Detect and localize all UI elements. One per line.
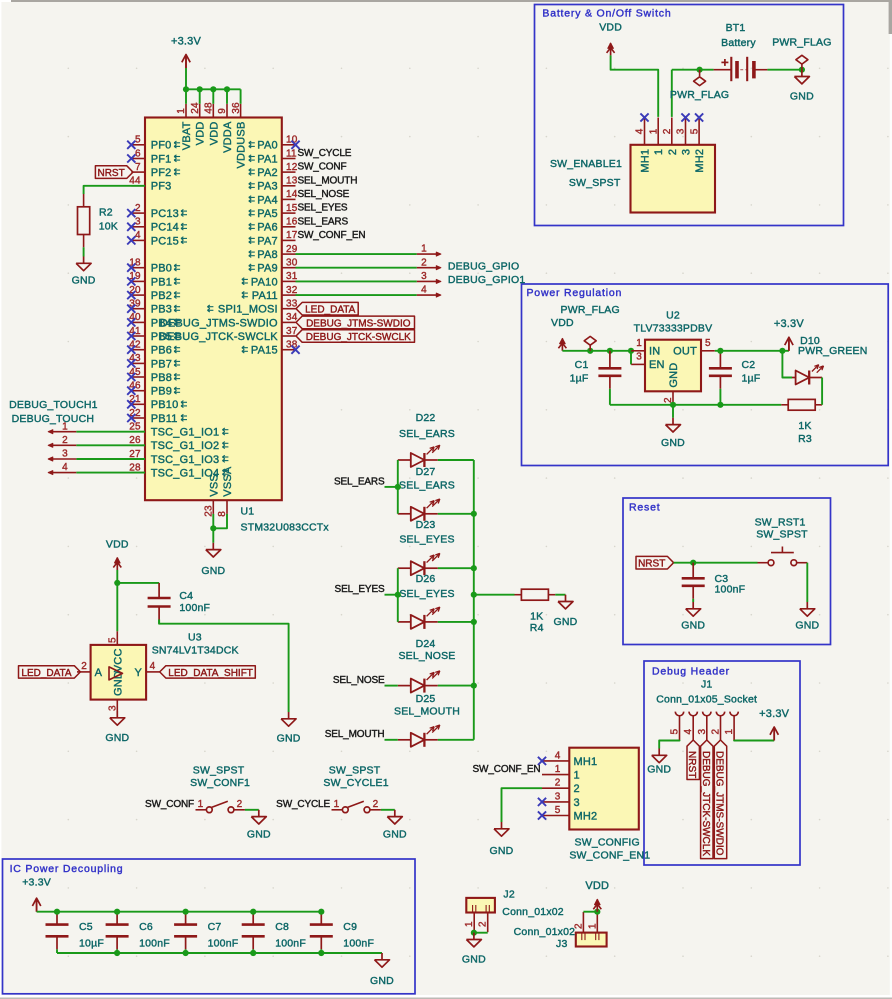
svg-text:1: 1: [421, 244, 427, 255]
svg-text:PF3: PF3: [151, 181, 172, 193]
svg-text:VDD: VDD: [106, 539, 129, 551]
svg-text:SEL_EYES: SEL_EYES: [335, 584, 385, 595]
svg-text:1µF: 1µF: [570, 372, 589, 384]
svg-text:1: 1: [574, 770, 580, 782]
svg-text:2: 2: [373, 799, 379, 810]
svg-text:3: 3: [62, 449, 68, 460]
svg-text:1: 1: [587, 923, 598, 929]
svg-text:MH1: MH1: [574, 756, 598, 768]
svg-text:100nF: 100nF: [275, 938, 306, 950]
svg-text:PC15: PC15: [151, 235, 179, 247]
svg-text:DEBUG_JTMS-SWDIO: DEBUG_JTMS-SWDIO: [160, 317, 278, 329]
svg-text:6: 6: [135, 148, 141, 159]
svg-text:4: 4: [421, 285, 427, 296]
svg-text:100nF: 100nF: [343, 938, 374, 950]
svg-text:D23: D23: [416, 519, 436, 531]
svg-text:LED_DATA: LED_DATA: [305, 305, 356, 316]
svg-text:PC13: PC13: [151, 208, 179, 220]
svg-text:C6: C6: [139, 921, 153, 933]
svg-text:3: 3: [108, 705, 119, 711]
svg-text:Debug Header: Debug Header: [652, 666, 730, 678]
svg-text:PWR_FLAG: PWR_FLAG: [772, 37, 831, 49]
svg-text:SW_CONF1: SW_CONF1: [190, 777, 250, 789]
svg-text:GND: GND: [795, 620, 819, 632]
svg-text:2: 2: [574, 783, 580, 795]
svg-text:PA9: PA9: [257, 263, 278, 275]
svg-text:VDD: VDD: [208, 122, 220, 146]
svg-text:SPI1_MOSI: SPI1_MOSI: [218, 304, 278, 316]
svg-text:7: 7: [135, 162, 141, 173]
svg-text:1µF: 1µF: [742, 372, 761, 384]
svg-text:SW_CONF: SW_CONF: [145, 799, 194, 810]
svg-text:2: 2: [237, 799, 243, 810]
svg-text:GND: GND: [668, 363, 680, 388]
svg-text:SEL_MOUTH: SEL_MOUTH: [394, 706, 460, 718]
svg-text:D26: D26: [416, 573, 436, 585]
svg-text:5: 5: [689, 128, 700, 134]
svg-text:PB6: PB6: [151, 345, 172, 357]
svg-text:STM32U083CCTx: STM32U083CCTx: [241, 522, 330, 534]
svg-text:GND: GND: [201, 565, 225, 577]
svg-text:9: 9: [217, 108, 228, 114]
svg-text:PA3: PA3: [257, 181, 278, 193]
svg-text:R2: R2: [99, 207, 113, 219]
svg-text:1: 1: [636, 338, 642, 349]
svg-text:GND: GND: [247, 828, 271, 840]
svg-text:1: 1: [464, 921, 475, 927]
svg-text:PF1: PF1: [151, 153, 172, 165]
svg-text:GND: GND: [681, 620, 705, 632]
svg-text:C8: C8: [275, 921, 289, 933]
svg-text:3: 3: [421, 271, 427, 282]
svg-text:SW_CYCLE: SW_CYCLE: [298, 148, 352, 159]
svg-text:1: 1: [648, 128, 659, 134]
svg-text:EN: EN: [649, 359, 665, 371]
svg-text:3: 3: [636, 352, 642, 363]
svg-text:1K: 1K: [530, 611, 543, 623]
svg-text:PB1: PB1: [151, 276, 172, 288]
svg-text:DEBUG_JTCK-SWCLK: DEBUG_JTCK-SWCLK: [159, 331, 278, 343]
svg-text:DEBUG_JTCK-SWCLK: DEBUG_JTCK-SWCLK: [306, 332, 411, 343]
svg-text:SEL_EARS: SEL_EARS: [334, 476, 385, 487]
svg-text:PA10: PA10: [251, 276, 278, 288]
svg-text:2: 2: [667, 149, 679, 155]
svg-text:PB9: PB9: [151, 386, 172, 398]
svg-text:5: 5: [135, 135, 141, 146]
svg-text:SW_CYCLE: SW_CYCLE: [276, 799, 330, 810]
svg-text:DEBUG_JTCK-SWCLK: DEBUG_JTCK-SWCLK: [700, 751, 711, 856]
svg-text:16: 16: [286, 217, 298, 228]
svg-text:+3.3V: +3.3V: [22, 877, 51, 889]
svg-text:100nF: 100nF: [139, 938, 170, 950]
svg-text:5: 5: [670, 729, 681, 735]
svg-text:3: 3: [676, 128, 687, 134]
svg-text:U3: U3: [188, 631, 202, 643]
svg-text:D25: D25: [416, 693, 436, 705]
svg-text:GND: GND: [790, 90, 814, 102]
svg-text:TSC_G1_IO1: TSC_G1_IO1: [151, 427, 220, 439]
svg-text:LED_DATA: LED_DATA: [21, 668, 72, 679]
svg-text:SEL_NOSE: SEL_NOSE: [398, 650, 455, 662]
svg-text:PF0: PF0: [151, 140, 172, 152]
svg-text:Reset: Reset: [629, 502, 660, 514]
svg-text:SN74LV1T34DCK: SN74LV1T34DCK: [152, 644, 239, 656]
svg-text:SW_CONFIG: SW_CONFIG: [575, 837, 640, 849]
svg-text:2: 2: [81, 661, 87, 672]
svg-text:C2: C2: [742, 359, 756, 371]
svg-text:GND: GND: [554, 616, 578, 628]
svg-text:PA6: PA6: [257, 222, 278, 234]
svg-text:1: 1: [198, 799, 204, 810]
svg-text:GND: GND: [383, 828, 407, 840]
svg-text:3: 3: [555, 791, 561, 802]
svg-text:1: 1: [724, 729, 735, 735]
svg-text:SEL_EARS: SEL_EARS: [298, 216, 349, 227]
svg-text:PB2: PB2: [151, 290, 172, 302]
svg-text:TSC_G1_IO3: TSC_G1_IO3: [151, 454, 220, 466]
svg-text:J3: J3: [556, 938, 568, 950]
svg-text:SW_CONF_EN: SW_CONF_EN: [298, 230, 366, 241]
svg-text:PB11: PB11: [151, 413, 178, 425]
svg-text:VDD: VDD: [599, 22, 622, 34]
svg-text:DEBUG_GPIO1: DEBUG_GPIO1: [448, 274, 525, 286]
svg-text:+3.3V: +3.3V: [171, 35, 202, 47]
svg-text:SEL_EYES: SEL_EYES: [399, 588, 454, 600]
svg-text:SEL_EARS: SEL_EARS: [399, 480, 455, 492]
svg-text:SEL_EARS: SEL_EARS: [399, 428, 455, 440]
svg-text:SW_SPST: SW_SPST: [569, 177, 621, 189]
svg-text:4: 4: [555, 750, 561, 761]
svg-text:Power Regulation: Power Regulation: [527, 287, 623, 299]
svg-text:SW_SPST: SW_SPST: [756, 529, 808, 541]
svg-text:TLV73333PDBV: TLV73333PDBV: [634, 323, 713, 335]
svg-text:PC14: PC14: [151, 222, 179, 234]
svg-text:GND: GND: [370, 975, 394, 987]
svg-text:SEL_MOUTH: SEL_MOUTH: [325, 729, 385, 740]
svg-text:D22: D22: [416, 412, 436, 424]
svg-text:MH2: MH2: [574, 810, 598, 822]
svg-text:TSC_G1_IO2: TSC_G1_IO2: [151, 440, 220, 452]
svg-text:R4: R4: [530, 622, 544, 634]
svg-text:13: 13: [286, 176, 298, 187]
svg-text:DEBUG_GPIO: DEBUG_GPIO: [448, 260, 519, 272]
svg-text:PB8: PB8: [151, 372, 172, 384]
svg-text:1: 1: [334, 799, 340, 810]
svg-text:4: 4: [62, 462, 68, 473]
svg-text:GND: GND: [462, 954, 486, 966]
svg-text:11: 11: [286, 148, 297, 159]
svg-text:SW_SPST: SW_SPST: [193, 765, 245, 777]
svg-text:MH2: MH2: [694, 149, 706, 173]
svg-text:+3.3V: +3.3V: [759, 708, 790, 720]
svg-text:SEL_NOSE: SEL_NOSE: [298, 189, 350, 200]
svg-text:DEBUG_TOUCH: DEBUG_TOUCH: [12, 413, 95, 425]
svg-text:2: 2: [662, 128, 673, 134]
svg-text:2: 2: [555, 778, 561, 789]
svg-text:100nF: 100nF: [179, 602, 210, 614]
svg-text:17: 17: [286, 230, 298, 241]
svg-text:SEL_NOSE: SEL_NOSE: [333, 675, 385, 686]
svg-text:PWR_GREEN: PWR_GREEN: [798, 345, 867, 357]
svg-text:PB3: PB3: [151, 304, 172, 316]
svg-text:NRST: NRST: [638, 559, 665, 570]
svg-text:3: 3: [681, 149, 693, 155]
svg-text:MH1: MH1: [640, 149, 652, 173]
svg-text:2: 2: [62, 435, 68, 446]
svg-text:5: 5: [705, 338, 711, 349]
svg-text:100nF: 100nF: [715, 584, 746, 596]
svg-text:SW_CONF_EN: SW_CONF_EN: [473, 764, 541, 775]
svg-text:PA5: PA5: [257, 208, 278, 220]
svg-text:15: 15: [286, 203, 298, 214]
svg-text:PWR_FLAG: PWR_FLAG: [670, 89, 729, 101]
svg-text:Battery: Battery: [721, 37, 756, 49]
svg-text:PA2: PA2: [257, 167, 278, 179]
svg-text:5: 5: [108, 637, 119, 643]
svg-text:PA11: PA11: [252, 290, 278, 302]
svg-text:PA7: PA7: [257, 235, 278, 247]
svg-text:D27: D27: [416, 466, 436, 478]
svg-text:R3: R3: [798, 433, 812, 445]
svg-text:SEL_EYES: SEL_EYES: [399, 534, 454, 546]
svg-text:A: A: [95, 667, 103, 679]
svg-text:SEL_MOUTH: SEL_MOUTH: [298, 175, 358, 186]
svg-text:GND: GND: [661, 437, 685, 449]
svg-text:3: 3: [697, 729, 708, 735]
svg-text:1: 1: [176, 108, 187, 114]
svg-text:DEBUG_JTMS-SWDIO: DEBUG_JTMS-SWDIO: [714, 751, 725, 856]
svg-text:U2: U2: [666, 310, 680, 322]
svg-text:10µF: 10µF: [79, 938, 104, 950]
svg-text:PF2: PF2: [151, 167, 172, 179]
svg-text:C7: C7: [208, 921, 222, 933]
svg-text:GND: GND: [490, 845, 514, 857]
svg-text:VDD: VDD: [195, 122, 207, 146]
svg-text:Battery & On/Off Switch: Battery & On/Off Switch: [542, 8, 671, 20]
svg-text:SEL_EYES: SEL_EYES: [298, 203, 348, 214]
svg-text:VSS: VSS: [208, 474, 220, 497]
svg-text:NRST: NRST: [97, 168, 124, 179]
svg-text:C5: C5: [79, 921, 93, 933]
svg-text:Conn_01x05_Socket: Conn_01x05_Socket: [656, 694, 757, 706]
svg-text:2: 2: [421, 257, 427, 268]
svg-text:IC Power Decoupling: IC Power Decoupling: [10, 863, 124, 875]
svg-text:4: 4: [683, 729, 694, 735]
svg-text:C4: C4: [179, 590, 193, 602]
svg-text:SW_CYCLE1: SW_CYCLE1: [323, 777, 388, 789]
svg-text:4: 4: [635, 128, 646, 134]
svg-text:1K: 1K: [798, 420, 811, 432]
svg-text:VDD: VDD: [585, 880, 609, 892]
svg-text:PWR_FLAG: PWR_FLAG: [561, 304, 620, 316]
svg-text:D24: D24: [416, 638, 436, 650]
svg-text:PA8: PA8: [257, 249, 278, 261]
svg-text:Y: Y: [135, 667, 143, 679]
svg-text:PA0: PA0: [257, 140, 278, 152]
svg-text:OUT: OUT: [673, 346, 697, 358]
svg-text:DEBUG_JTMS-SWDIO: DEBUG_JTMS-SWDIO: [306, 318, 411, 329]
svg-text:2: 2: [135, 203, 141, 214]
svg-text:4: 4: [135, 230, 141, 241]
svg-text:PB10: PB10: [151, 399, 179, 411]
svg-text:SW_CONF_EN1: SW_CONF_EN1: [569, 849, 650, 861]
svg-text:4: 4: [150, 661, 156, 672]
svg-text:3: 3: [135, 217, 141, 228]
svg-text:VDD: VDD: [551, 317, 574, 329]
svg-text:VSSA: VSSA: [222, 466, 234, 497]
svg-text:SW_SPST: SW_SPST: [329, 765, 381, 777]
svg-text:GND: GND: [72, 275, 96, 287]
svg-text:10K: 10K: [99, 220, 118, 232]
svg-text:DEBUG_TOUCH1: DEBUG_TOUCH1: [9, 399, 98, 411]
svg-text:14: 14: [286, 189, 298, 200]
svg-text:SW_CONF: SW_CONF: [298, 162, 347, 173]
svg-text:PB7: PB7: [151, 358, 172, 370]
svg-text:NRST: NRST: [686, 751, 697, 778]
svg-text:5: 5: [555, 805, 561, 816]
svg-text:100nF: 100nF: [208, 938, 239, 950]
svg-text:C9: C9: [343, 921, 357, 933]
svg-text:U1: U1: [241, 506, 255, 518]
svg-text:SW_ENABLE1: SW_ENABLE1: [550, 158, 622, 170]
svg-text:1: 1: [555, 764, 561, 775]
svg-text:VDDUSB: VDDUSB: [236, 122, 248, 169]
svg-text:VDDA: VDDA: [222, 121, 234, 153]
svg-text:2: 2: [478, 921, 489, 927]
svg-text:SW_RST1: SW_RST1: [755, 517, 806, 529]
svg-text:GND: GND: [277, 733, 301, 745]
svg-text:IN: IN: [649, 346, 660, 358]
svg-text:2: 2: [711, 729, 722, 735]
svg-text:VBAT: VBAT: [181, 121, 193, 150]
svg-text:12: 12: [286, 162, 298, 173]
svg-text:1: 1: [653, 149, 665, 155]
svg-text:PA15: PA15: [251, 345, 278, 357]
svg-text:PB0: PB0: [151, 263, 172, 275]
svg-text:LED_DATA_SHIFT: LED_DATA_SHIFT: [168, 668, 253, 679]
svg-text:Conn_01x02: Conn_01x02: [502, 906, 564, 918]
svg-text:+3.3V: +3.3V: [774, 318, 805, 330]
svg-text:J2: J2: [503, 888, 515, 900]
svg-text:Conn_01x02: Conn_01x02: [514, 926, 576, 938]
svg-text:3: 3: [574, 797, 580, 809]
svg-text:BT1: BT1: [726, 22, 746, 34]
svg-text:PA1: PA1: [257, 153, 278, 165]
svg-text:GND: GND: [647, 764, 671, 776]
svg-text:PA4: PA4: [257, 194, 278, 206]
svg-text:GND: GND: [105, 732, 129, 744]
svg-text:C1: C1: [575, 359, 589, 371]
svg-text:J1: J1: [701, 679, 713, 691]
